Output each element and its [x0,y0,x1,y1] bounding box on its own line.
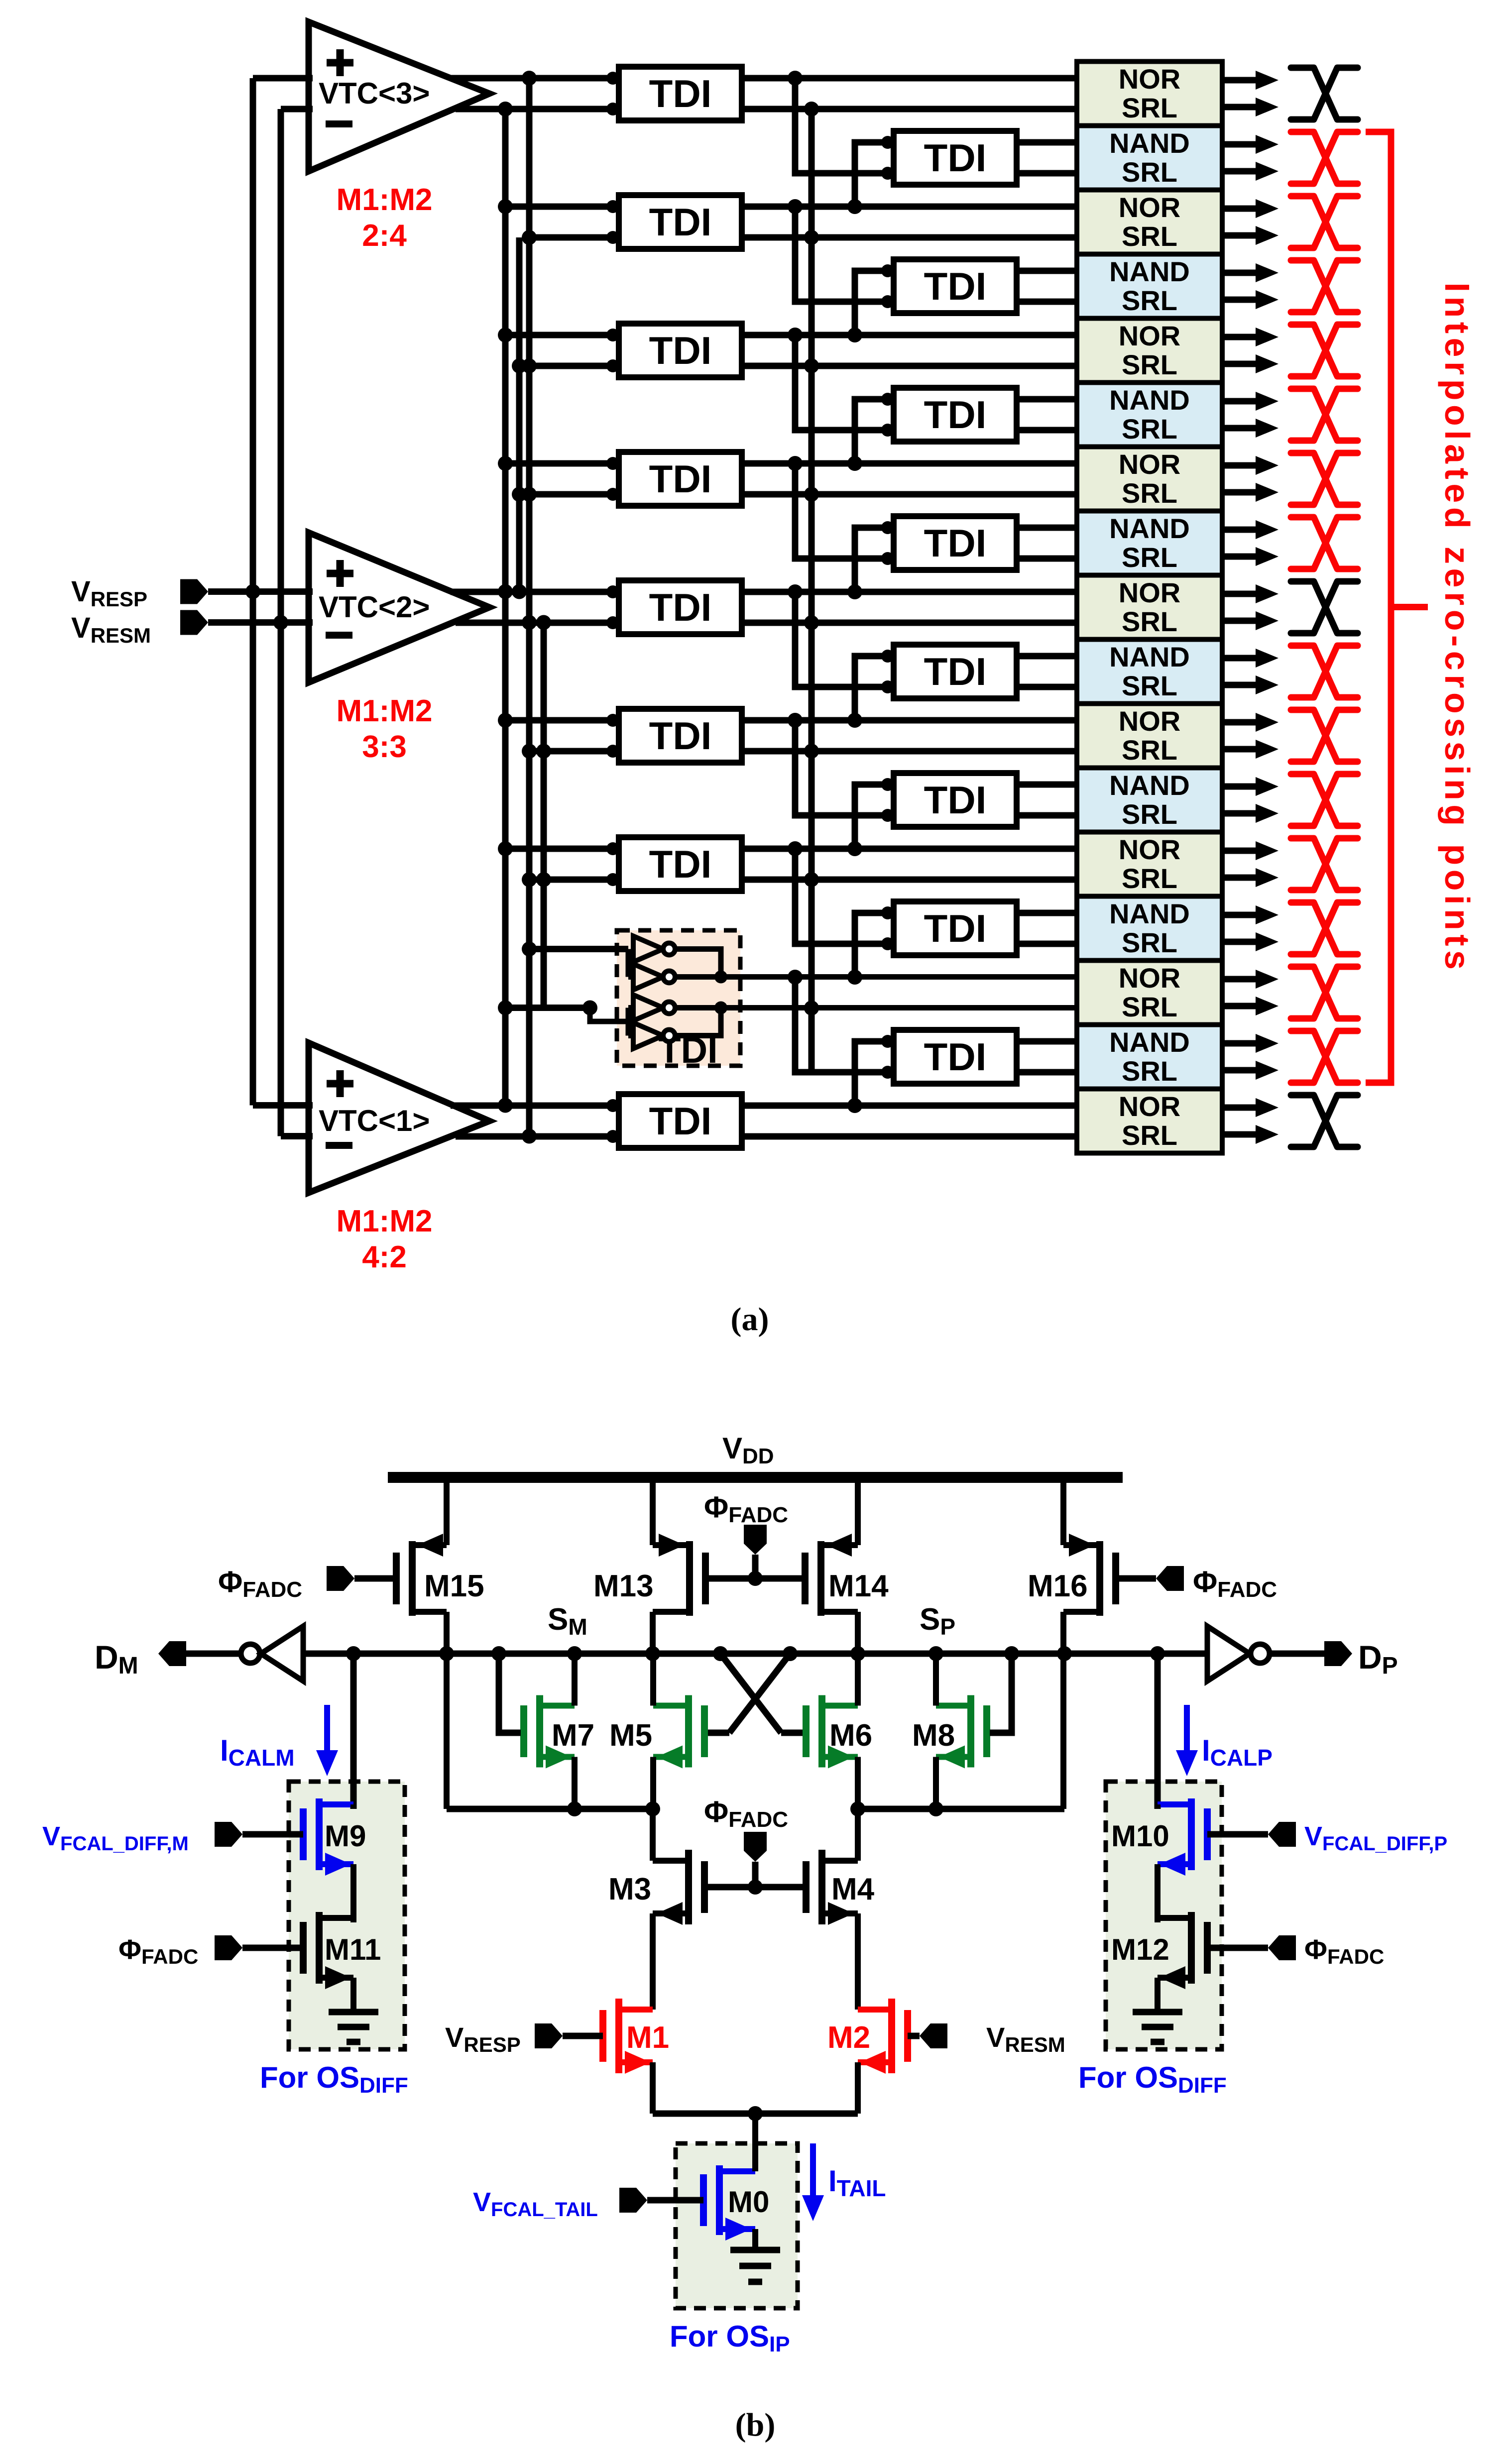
junction on SM/SP rail [713,1646,728,1661]
wire TDI6 P out to SRL6 [1017,396,1077,403]
svg-text:NOR: NOR [1119,962,1180,994]
svg-text:TDI: TDI [924,136,987,180]
wire to VTC3 + [253,75,313,82]
wire TDI6 top input hook [855,399,888,463]
svg-text:NOR: NOR [1119,448,1180,480]
wire VRESM to VTC2 - [208,619,313,626]
TDI10 input pin bump bottom [881,680,894,693]
svg-text:TDI: TDI [649,72,712,115]
wire TDI9 M out to SRL9 [742,620,1077,626]
wire PhiFADC pin stem [752,1555,759,1578]
wire PhiFADC to M11 gate [242,1945,303,1951]
svg-text:NAND: NAND [1109,770,1190,801]
transistor M12 [1204,1922,1211,1974]
transistor M9 [300,1808,307,1860]
svg-text:(b): (b) [735,2407,776,2443]
SRL12 output arrow upper [1222,784,1256,790]
TDI3 input pin bump top [606,200,619,213]
junction bus A [498,584,513,599]
NOR SRL box 1 [1077,62,1222,126]
svg-text:M16: M16 [1028,1569,1088,1603]
svg-text:M5: M5 [609,1718,652,1753]
wire VFCAL_DIFF_M to M9 gate [242,1831,303,1838]
wire left bus C x=1043 [516,237,523,592]
svg-text:TDI: TDI [924,650,987,693]
SRL4 output arrow lower [1222,297,1256,303]
junction bus D top [536,615,551,630]
TDI17 input pin bump top [606,1099,619,1112]
svg-text:M11: M11 [325,1933,381,1966]
wire VTC output P to TDI17 [451,1103,619,1109]
wire TDI1 P out to SRL1 [742,75,1077,82]
wire VRESP to VTC2 + [208,588,313,595]
wire PhiFADC to M12 gate [1207,1945,1268,1951]
pin VFCAL_TAIL [619,2188,647,2213]
wire TDI7 P out to SRL7 [742,460,1077,467]
SRL10 output arrow lower [1222,682,1256,688]
pin PhiFADC (M11 gate) [215,1935,242,1960]
wire TDI6 bottom input hook [795,335,888,430]
wire TDI9 P out to SRL9 [742,589,1077,595]
zero-crossing symbol 4 [1291,260,1358,312]
junction M5/M3 on middle rail [645,1801,660,1816]
transistor M13 [702,1553,709,1604]
ground symbol M12 [1133,2009,1182,2016]
wire VTC output P to TDI1 [451,75,619,82]
transistor M6 [803,1705,810,1757]
input pin VRESP [180,579,208,604]
pin DM [158,1641,186,1666]
svg-text:4:2: 4:2 [362,1240,407,1274]
wire TDI8 P out to SRL8 [1017,525,1077,531]
TDI box 11 [619,709,742,763]
junction mid bus [804,230,819,245]
SRL13 output arrow lower [1222,875,1256,881]
TDI2 input pin bump bottom [881,167,894,180]
junction TDI4 top input tap [847,328,862,342]
zero-crossing symbol 5 [1291,325,1358,376]
wire VFCAL_TAIL to M0 gate [647,2197,703,2204]
wire TDI3 M out to SRL3 [742,234,1077,241]
wire TDI12 bottom input hook [795,720,888,815]
inverter 4 in dashed TDI [633,1023,675,1049]
wire TDI4 P out to SRL4 [1017,268,1077,274]
zero-crossing symbol 1 [1291,68,1358,119]
ground symbol M11 [329,2009,378,2016]
SRL2 output arrow lower [1222,168,1256,175]
arrow ICALM [324,1705,330,1750]
TDI box 3 [619,195,742,249]
svg-text:NOR: NOR [1119,705,1180,737]
wire jog to inv3/4 inputs [590,1008,628,1022]
wire M8 gate to SP rail [990,1654,1012,1733]
wire TDI2 top input hook [855,142,888,207]
svg-text:TDI: TDI [924,778,987,822]
wire TDI13 M out to SRL13 [742,877,1077,883]
inverter 3 in dashed TDI [633,995,675,1021]
TDI2 input pin bump top [881,136,894,149]
zero-crossing symbol 6 [1291,389,1358,441]
junction TDI6 bottom input tap [788,328,803,342]
svg-text:NAND: NAND [1109,641,1190,672]
wire TDI5 M out to SRL5 [742,363,1077,369]
dashed box For OS_DIFF right [1106,1782,1222,2049]
svg-text:NOR: NOR [1119,577,1180,608]
wire inv2 out / TDI15 P out to SRL15 [675,974,1077,980]
NOR SRL box 11 [1077,704,1222,768]
wire DP rail to M10 [1155,1654,1161,1809]
TDI12 input pin bump top [881,778,894,791]
SRL14 output arrow upper [1222,912,1256,918]
wire M15 gate [354,1575,393,1582]
wire M7 gate to SM rail [499,1654,521,1733]
svg-text:SRL: SRL [1122,285,1177,316]
TDI5 input pin bump top [606,329,619,341]
junction bus B [522,71,537,86]
wire bus B to TDI3 bottom input [529,234,619,241]
svg-text:M1:M2: M1:M2 [337,1204,433,1238]
svg-text:VTC<3>: VTC<3> [319,77,430,110]
svg-text:VTC<2>: VTC<2> [319,590,430,624]
svg-text:SRL: SRL [1122,606,1177,637]
wire bus A to dashed TDI inv3/4 [505,1005,590,1011]
wire to M6 gate [781,1730,803,1736]
wire vertical bus VRESM [278,109,284,1136]
zero-crossing symbol 9 [1291,581,1358,633]
TDI3 input pin bump bottom [606,231,619,244]
NOR SRL box 3 [1077,190,1222,254]
SRL6 output arrow lower [1222,425,1256,432]
junction TDI12 top input tap [847,841,862,856]
zero-crossing symbol 16 [1291,1031,1358,1083]
svg-text:SRL: SRL [1122,798,1177,830]
SRL7 output arrow upper [1222,462,1256,469]
TDI4 input pin bump top [881,264,894,277]
wire VFCAL_DIFF_P to M10 gate [1207,1831,1268,1838]
svg-text:TDI: TDI [649,457,712,501]
junction bus A [498,102,513,116]
transistor M16 [1112,1553,1119,1604]
wire TDI4 top input hook [855,271,888,335]
wire TDI4 M out to SRL4 [1017,299,1077,305]
wire TDI17 P out to SRL17 [742,1103,1077,1109]
junction inv pair 2 [714,1002,727,1014]
svg-text:3:3: 3:3 [362,730,407,764]
svg-text:M1:M2: M1:M2 [337,694,433,728]
TDI5 input pin bump bottom [606,359,619,372]
NOR SRL box 13 [1077,832,1222,896]
junction TDI14 bottom input tap [788,841,803,856]
junction bus B [522,358,537,373]
wire M16 gate [1116,1575,1156,1582]
svg-text:(a): (a) [731,1301,769,1338]
zero-crossing symbol 10 [1291,646,1358,697]
junction on SM/SP rail [783,1646,798,1661]
junction bus A [498,1001,513,1015]
VDD rail [388,1472,1123,1483]
wire TDI16 M out to SRL16 [1017,1069,1077,1076]
wire M3/M4 gates [704,1884,806,1891]
wire TDI12 M out to SRL12 [1017,812,1077,819]
wire inv3 out / TDI15 M out to SRL15 [675,1005,1077,1010]
inverter DP [1207,1626,1250,1681]
inverter DM [241,1644,260,1663]
NAND SRL box 4 [1077,254,1222,319]
junction on SM/SP rail [1150,1646,1165,1661]
wire bus B to TDI13 bottom input [529,877,619,883]
SRL10 output arrow upper [1222,655,1256,662]
svg-text:NAND: NAND [1109,1026,1190,1058]
junction TDI8 top input tap [847,584,862,599]
svg-text:TDI: TDI [924,521,987,565]
wire TDI2 M out to SRL2 [1017,170,1077,177]
wire splitter inv1/2 [626,949,631,977]
junction on SM/SP rail [928,1646,943,1661]
TDI16 input pin bump top [881,1035,894,1048]
junction bus C [512,584,527,599]
junction inv pair 1 [714,971,727,984]
SRL11 output arrow upper [1222,719,1256,726]
zero-crossing symbol 2 [1291,132,1358,184]
svg-text:TDI: TDI [924,393,987,437]
NOR SRL box 17 [1077,1089,1222,1153]
pin PhiFADC (M16 gate) [1156,1566,1184,1591]
SRL7 output arrow lower [1222,489,1256,496]
arrow ICALP [1184,1705,1190,1750]
svg-text:TDI: TDI [649,714,712,758]
comparator VTC&lt;1&gt; [309,1043,489,1193]
transistor M8 [983,1705,990,1757]
junction bus A [498,1098,513,1113]
svg-text:SRL: SRL [1122,991,1177,1022]
wire bus A to TDI13 top input [505,846,619,852]
wire TDI17 M out to SRL17 [742,1133,1077,1140]
NAND SRL box 2 [1077,126,1222,190]
wire TDI10 M out to SRL10 [1017,684,1077,690]
wire TDI10 P out to SRL10 [1017,653,1077,660]
zero-crossing symbol 8 [1291,517,1358,569]
pin PhiFADC (M13/M14 gates) [744,1525,767,1555]
wire PhiFADC stem [752,1862,759,1887]
wire to VTC1 + [253,1102,313,1109]
NOR SRL box 5 [1077,319,1222,383]
junction mid bus [804,1001,819,1015]
wire TDI3 P out to SRL3 [742,204,1077,210]
wire TDI14 top input hook [855,913,888,977]
SRL3 output arrow lower [1222,232,1256,239]
transistor M3 [701,1861,708,1913]
SRL12 output arrow lower [1222,810,1256,817]
junction on SM/SP rail [567,1646,582,1661]
wire bus A to TDI5 top input [505,332,619,338]
TDI14 input pin bump bottom [881,937,894,950]
zero-crossing symbol 15 [1291,967,1358,1018]
wire inv4 out [675,1008,721,1036]
wire DM-SM-SP rail [303,1651,1207,1657]
junction TDI16 bottom input tap [788,970,803,985]
junction M8 on middle rail [928,1801,943,1816]
svg-text:M2: M2 [827,2020,870,2055]
transistor M10 [1204,1808,1211,1860]
svg-text:SRL: SRL [1122,670,1177,701]
SRL8 output arrow upper [1222,527,1256,533]
junction bus B [522,615,537,630]
junction TDI2 top input tap [847,199,862,214]
wire TDI12 top input hook [855,784,888,849]
zero-crossing symbol 12 [1291,774,1358,826]
junction M6/M4 on middle rail [850,1801,865,1816]
SRL16 output arrow upper [1222,1040,1256,1047]
junction bus A [498,199,513,214]
wire bus A to TDI11 top input [505,717,619,724]
TDI12 input pin bump bottom [881,809,894,822]
zero-crossing symbol 11 [1291,710,1358,762]
svg-text:M15: M15 [424,1569,484,1603]
SRL4 output arrow upper [1222,270,1256,276]
junction bus A [498,713,513,728]
wire TDI11 P out to SRL11 [742,717,1077,724]
TDI box 14 [894,901,1017,955]
junction bus B [522,1129,537,1144]
TDI box 2 [894,131,1017,185]
junction mid bus [804,358,819,373]
svg-text:M10: M10 [1111,1819,1169,1853]
SRL2 output arrow upper [1222,141,1256,148]
wire left bus A x=1015 [502,109,509,1106]
TDI box 1 [619,67,742,120]
red bracket (interpolated range) [1366,132,1391,1083]
svg-text:2:4: 2:4 [362,219,407,253]
wire TDI5 P out to SRL5 [742,332,1077,338]
wire bus A to TDI3 top input [505,204,619,210]
wire middle rail left [447,1806,653,1812]
svg-text:TDI: TDI [924,906,987,950]
wire bus B to TDI7 bottom input [529,491,619,498]
junction bus D [536,744,551,759]
NAND SRL box 10 [1077,640,1222,704]
svg-text:M8: M8 [912,1718,955,1753]
TDI17 input pin bump bottom [606,1130,619,1143]
transistor M0 [700,2174,707,2226]
NAND SRL box 12 [1077,768,1222,832]
svg-text:SRL: SRL [1122,927,1177,958]
wire TDI16 bottom input hook [795,977,888,1072]
TDI8 input pin bump bottom [881,552,894,565]
wire VTC output M to TDI9 [456,620,619,626]
inverter 2 in dashed TDI [633,964,675,990]
wire bus A to TDI7 top input [505,460,619,467]
TDI6 input pin bump bottom [881,424,894,437]
svg-text:M4: M4 [831,1872,875,1906]
zero-crossing symbol 7 [1291,453,1358,505]
comparator VTC&lt;2&gt; [309,533,489,682]
inverter 1 in dashed TDI [633,936,675,962]
zero-crossing symbol 3 [1291,196,1358,248]
TDI7 input pin bump top [606,457,619,470]
SRL17 output arrow upper [1222,1105,1256,1111]
junction dashed TDI input [582,1001,597,1015]
junction TDI10 bottom input tap [788,584,803,599]
svg-text:TDI: TDI [649,842,712,886]
junction M13/M14 gate node [748,1571,763,1586]
junction bus B [522,942,537,957]
dashed box For OS_IP [676,2143,798,2308]
junction mid bus [804,615,819,630]
SRL5 output arrow lower [1222,361,1256,367]
junction on SM/SP rail [439,1646,454,1661]
NOR SRL box 15 [1077,961,1222,1025]
svg-text:SRL: SRL [1122,156,1177,188]
svg-text:NOR: NOR [1119,834,1180,865]
wire VTC output M to TDI1 [456,106,619,112]
transistor M14 [802,1553,809,1604]
junction bus B [522,744,537,759]
wire inv1 out [675,949,721,977]
SRL17 output arrow lower [1222,1131,1256,1138]
junction TDI6 top input tap [847,456,862,471]
svg-text:SRL: SRL [1122,477,1177,509]
TDI box 12 [894,773,1017,827]
wire DM rail to M9 [350,1654,357,1809]
wire to M5 gate [708,1730,729,1736]
junction bus A [498,328,513,342]
wire TDI1 M out to SRL1 [742,106,1077,112]
TDI13 input pin bump bottom [606,873,619,886]
svg-text:M14: M14 [828,1569,889,1603]
svg-text:VTC<1>: VTC<1> [319,1104,430,1137]
TDI11 input pin bump bottom [606,745,619,758]
svg-text:NOR: NOR [1119,192,1180,223]
pin VRESM [920,2023,947,2048]
svg-text:SRL: SRL [1122,863,1177,894]
junction bus A [498,456,513,471]
svg-text:NAND: NAND [1109,256,1190,287]
wire VTC output M to TDI17 [456,1133,619,1140]
svg-text:NAND: NAND [1109,513,1190,544]
wire inverter to DP pin [1270,1651,1324,1657]
svg-text:M0: M0 [728,2185,769,2219]
dashed box For OS_DIFF left [289,1782,405,2049]
junction on SM/SP rail [1057,1646,1072,1661]
TDI box 4 [894,259,1017,313]
svg-text:SRL: SRL [1122,734,1177,766]
pin VFCAL_DIFF_P [1268,1822,1296,1847]
wire bus B to TDI5 bottom input [529,363,619,369]
TDI11 input pin bump top [606,714,619,727]
transistor M15 [393,1553,400,1604]
svg-text:TDI: TDI [924,1035,987,1079]
SRL16 output arrow lower [1222,1067,1256,1074]
TDI box 5 [619,324,742,377]
junction mid bus [804,102,819,116]
SRL1 output arrow lower [1222,104,1256,111]
transistor M7 [520,1705,527,1757]
NAND SRL box 14 [1077,896,1222,961]
junction tail node [748,2106,763,2121]
wire mid bus x=1630 [809,109,815,1072]
TDI9 input pin bump bottom [606,616,619,629]
arrow ITAIL [810,2143,816,2195]
wire TDI10 bottom input hook [795,592,888,687]
TDI1 input pin bump bottom [606,103,619,115]
svg-text:SRL: SRL [1122,221,1177,252]
SRL3 output arrow upper [1222,206,1256,212]
TDI box 17 [619,1094,742,1148]
transistor M5 [701,1705,708,1757]
svg-text:SRL: SRL [1122,1055,1177,1087]
transistor M1 [599,2010,606,2062]
svg-text:M3: M3 [608,1872,651,1906]
